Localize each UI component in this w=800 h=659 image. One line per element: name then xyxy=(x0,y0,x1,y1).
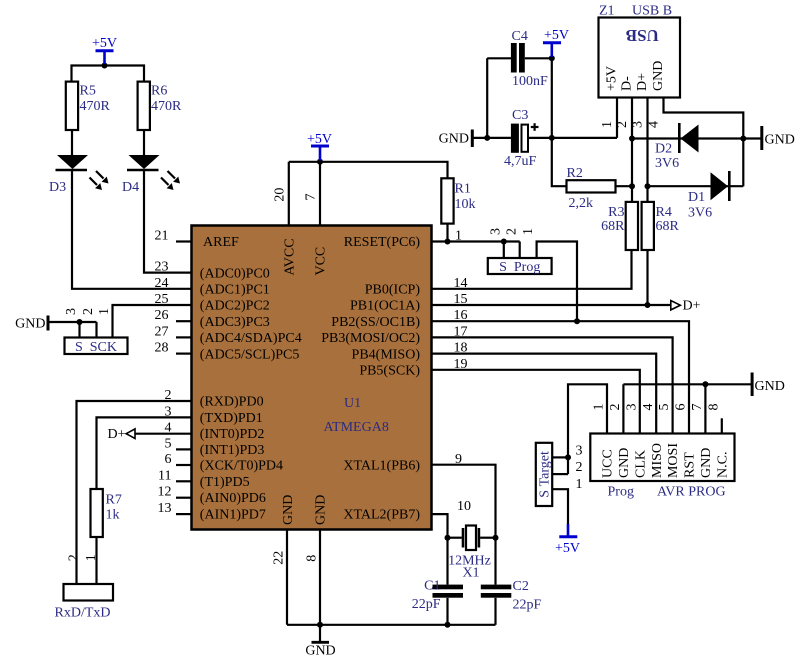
svg-text:2: 2 xyxy=(615,121,630,128)
capacitor C1 xyxy=(433,585,464,598)
svg-text:22pF: 22pF xyxy=(513,598,542,613)
wire S SCK pin2 xyxy=(95,322,97,338)
crystal X1 xyxy=(463,526,479,551)
pin stub 12 xyxy=(176,497,192,499)
ground bar C3 xyxy=(471,130,474,148)
svg-text:USB: USB xyxy=(626,26,659,45)
svg-text:GND: GND xyxy=(281,495,296,525)
wire pin3 PD1 to R7 xyxy=(97,417,192,489)
svg-text:PB1(OC1A): PB1(OC1A) xyxy=(350,299,420,314)
svg-text:CLK: CLK xyxy=(633,450,648,478)
wire AVCC pin20 xyxy=(288,162,290,226)
svg-text:D+: D+ xyxy=(635,73,650,91)
wire AVR pin2 xyxy=(622,384,624,433)
wire R4 bottom xyxy=(646,250,648,305)
svg-text:D+: D+ xyxy=(683,299,701,314)
svg-text:USB B: USB B xyxy=(632,4,672,19)
svg-text:6: 6 xyxy=(165,452,172,467)
resistor R4 xyxy=(642,202,654,250)
svg-text:R2: R2 xyxy=(567,166,583,181)
svg-text:PB0(ICP): PB0(ICP) xyxy=(365,283,421,298)
svg-text:R5: R5 xyxy=(80,84,96,99)
resistor R5 xyxy=(66,82,78,130)
svg-text:2: 2 xyxy=(81,308,96,315)
wire 17 PB3 to AVR MOSI xyxy=(432,337,673,433)
resistor R1 xyxy=(441,178,453,223)
pin stub 11 xyxy=(176,480,192,482)
wire 15 PB1 xyxy=(432,304,648,306)
svg-text:PB3(MOSI/OC2): PB3(MOSI/OC2) xyxy=(321,331,420,346)
wire R2 right xyxy=(616,185,633,187)
svg-text:C4: C4 xyxy=(512,29,528,44)
wire GND to C3 xyxy=(473,137,511,139)
svg-text:6: 6 xyxy=(674,404,689,411)
svg-text:+5V: +5V xyxy=(307,132,332,147)
svg-text:1k: 1k xyxy=(106,508,120,523)
svg-text:22pF: 22pF xyxy=(412,597,441,612)
svg-text:7: 7 xyxy=(690,404,705,411)
svg-text:10: 10 xyxy=(457,499,471,514)
wire C1 bottom xyxy=(446,598,448,625)
wire bottom rail xyxy=(287,624,496,626)
svg-text:XTAL2(PB7): XTAL2(PB7) xyxy=(343,508,420,523)
wire AVR pin7 xyxy=(704,384,706,433)
wire S Prog pin2 xyxy=(519,242,521,259)
pin stub 28 xyxy=(176,353,192,355)
svg-text:8: 8 xyxy=(706,404,721,411)
svg-text:(AIN0)PD6: (AIN0)PD6 xyxy=(200,491,266,506)
switch S SCK xyxy=(65,338,128,355)
svg-text:3: 3 xyxy=(165,404,172,419)
svg-text:C1: C1 xyxy=(424,579,440,594)
wire AVR pin8 stub xyxy=(721,418,723,433)
power +5V symbol C4 xyxy=(543,43,561,57)
svg-text:R3: R3 xyxy=(608,205,624,220)
switch S Prog xyxy=(488,258,552,274)
svg-text:27: 27 xyxy=(155,324,169,339)
power +5V symbol S Target xyxy=(559,524,577,537)
wire D2 row xyxy=(632,137,761,139)
svg-text:4: 4 xyxy=(165,421,172,436)
svg-text:Z1: Z1 xyxy=(599,4,615,19)
wire pin2 PD0 to RxD/TxD xyxy=(77,401,192,584)
node D+ arrow left xyxy=(126,429,135,439)
wire S Target pin2 xyxy=(552,473,568,475)
wire R7 to RxD/TxD xyxy=(95,537,97,584)
wire C2 bottom xyxy=(494,598,496,625)
pin stub 6 xyxy=(176,464,192,466)
wire 9 XTAL1 xyxy=(432,465,496,538)
wire VCC pin7 xyxy=(319,162,321,226)
svg-text:ATMEGA8: ATMEGA8 xyxy=(324,420,389,435)
wire S SCK pin3 xyxy=(78,322,80,338)
power +5V symbol VCC xyxy=(311,146,329,161)
wire S Target pin1 to +5V xyxy=(552,489,568,525)
wire S Target pin3 xyxy=(552,456,568,458)
svg-text:PB5(SCK): PB5(SCK) xyxy=(359,364,420,379)
power +5V symbol top-left xyxy=(96,51,114,64)
node D+ arrow right xyxy=(671,301,681,310)
svg-text:16: 16 xyxy=(454,308,468,323)
svg-text:8: 8 xyxy=(305,555,320,562)
svg-text:GND: GND xyxy=(439,132,469,147)
wire 10 XTAL2 xyxy=(432,514,448,585)
svg-text:68R: 68R xyxy=(656,219,680,234)
LED D4 xyxy=(127,155,180,190)
svg-text:GND: GND xyxy=(617,448,632,478)
wire crystal right xyxy=(480,537,495,539)
svg-text:1: 1 xyxy=(521,228,536,235)
IC U1 ATMEGA8 xyxy=(192,226,432,530)
svg-text:AVCC: AVCC xyxy=(283,238,298,275)
svg-text:4,7uF: 4,7uF xyxy=(504,154,537,169)
svg-text:XTAL1(PB6): XTAL1(PB6) xyxy=(343,458,420,473)
svg-text:7: 7 xyxy=(304,194,319,201)
ground bar S SCK xyxy=(47,316,50,331)
resistor R7 xyxy=(91,489,103,537)
svg-text:3: 3 xyxy=(488,228,503,235)
svg-text:3: 3 xyxy=(631,121,646,128)
svg-text:R1: R1 xyxy=(455,182,471,197)
svg-text:14: 14 xyxy=(454,276,468,291)
svg-text:(ADC1)PC1: (ADC1)PC1 xyxy=(200,283,270,298)
resistor R2 xyxy=(567,180,616,192)
svg-text:RST: RST xyxy=(683,452,698,478)
svg-text:3: 3 xyxy=(64,308,79,315)
svg-text:R4: R4 xyxy=(656,205,672,220)
svg-text:MISO: MISO xyxy=(650,443,665,478)
capacitor C3 polarized xyxy=(511,123,539,153)
svg-text:15: 15 xyxy=(454,292,468,307)
resistor R6 xyxy=(138,82,150,130)
svg-text:10k: 10k xyxy=(455,197,476,212)
svg-text:(T1)PD5: (T1)PD5 xyxy=(200,475,250,490)
wire D4 cathode to pin23 xyxy=(144,171,192,273)
svg-text:2: 2 xyxy=(504,228,519,235)
svg-text:3: 3 xyxy=(624,404,639,411)
wire S SCK pin1 to pin25 xyxy=(113,305,192,338)
svg-text:470R: 470R xyxy=(151,99,182,114)
svg-text:17: 17 xyxy=(454,324,468,339)
svg-text:(XCK/T0)PD4: (XCK/T0)PD4 xyxy=(200,459,283,474)
svg-text:20: 20 xyxy=(273,188,288,202)
svg-text:23: 23 xyxy=(155,260,169,275)
svg-text:C3: C3 xyxy=(512,108,528,123)
svg-text:C2: C2 xyxy=(513,579,529,594)
svg-text:2: 2 xyxy=(608,404,623,411)
wire GND pin8 xyxy=(319,530,321,625)
svg-text:5: 5 xyxy=(165,436,172,451)
svg-text:PB4(MISO): PB4(MISO) xyxy=(352,347,421,362)
svg-text:Prog: Prog xyxy=(608,485,634,500)
svg-text:3V6: 3V6 xyxy=(655,156,679,171)
svg-text:(INT1)PD3: (INT1)PD3 xyxy=(200,443,265,458)
switch S Target xyxy=(536,443,552,506)
svg-text:11: 11 xyxy=(158,468,171,483)
svg-text:2: 2 xyxy=(66,554,81,561)
wire top-left rail xyxy=(72,66,145,82)
svg-text:2: 2 xyxy=(576,460,583,475)
svg-text:AVR PROG: AVR PROG xyxy=(657,485,726,500)
svg-text:3: 3 xyxy=(576,444,583,459)
svg-text:GND: GND xyxy=(699,448,714,478)
connector Z1 USB B xyxy=(599,18,681,98)
svg-text:(ADC3)PC3: (ADC3)PC3 xyxy=(200,315,270,330)
ground bar AVR PROG xyxy=(751,373,754,397)
wire reset pin1 xyxy=(432,240,520,242)
wire R6 to D4 xyxy=(143,130,145,155)
svg-text:RESET(PC6): RESET(PC6) xyxy=(344,235,421,250)
svg-text:(ADC0)PC0: (ADC0)PC0 xyxy=(200,266,270,281)
wire GND to S SCK pins xyxy=(50,321,97,323)
wire R1 bottom xyxy=(446,224,448,242)
LED D3 xyxy=(56,155,109,190)
svg-text:100nF: 100nF xyxy=(512,74,548,89)
svg-text:D2: D2 xyxy=(655,142,672,157)
svg-text:(ADC2)PC2: (ADC2)PC2 xyxy=(200,299,270,314)
wire C2 top xyxy=(494,538,496,585)
wire R5 to D3 xyxy=(71,130,73,155)
svg-text:(INT0)PD2: (INT0)PD2 xyxy=(200,427,265,442)
wire C4 right plate xyxy=(525,57,552,59)
svg-text:PB2(SS/OC1B): PB2(SS/OC1B) xyxy=(331,315,420,330)
svg-text:1: 1 xyxy=(592,404,607,411)
svg-text:N.C.: N.C. xyxy=(715,452,730,478)
svg-text:S Target: S Target xyxy=(538,451,553,498)
svg-text:68R: 68R xyxy=(601,219,625,234)
svg-text:2,2k: 2,2k xyxy=(569,196,594,211)
svg-text:+5V: +5V xyxy=(92,36,117,51)
svg-text:(AIN1)PD7: (AIN1)PD7 xyxy=(200,508,266,523)
svg-text:R6: R6 xyxy=(151,84,167,99)
svg-text:GND: GND xyxy=(651,61,666,91)
svg-text:(ADC5/SCL)PC5: (ADC5/SCL)PC5 xyxy=(200,347,300,362)
wire D1 row xyxy=(648,185,744,187)
wire USB pin3 D+ column xyxy=(646,98,648,202)
svg-text:26: 26 xyxy=(155,308,169,323)
svg-text:UCC: UCC xyxy=(601,449,616,478)
svg-text:1: 1 xyxy=(84,554,99,561)
svg-text:GND: GND xyxy=(305,644,335,659)
svg-text:13: 13 xyxy=(158,501,172,516)
svg-text:+5V: +5V xyxy=(605,66,620,91)
wire USB pin4 GND route xyxy=(664,98,744,187)
wire D3 cathode to pin24 xyxy=(72,171,192,289)
svg-text:25: 25 xyxy=(155,292,169,307)
svg-text:D-: D- xyxy=(620,76,635,91)
svg-text:+5V: +5V xyxy=(555,541,580,556)
ground symbol bottom xyxy=(312,641,330,644)
wire C3 right xyxy=(528,137,617,139)
svg-text:3V6: 3V6 xyxy=(688,206,712,221)
svg-text:470R: 470R xyxy=(80,99,111,114)
svg-text:1: 1 xyxy=(600,121,615,128)
svg-text:2: 2 xyxy=(165,388,172,403)
svg-text:RxD/TxD: RxD/TxD xyxy=(55,606,111,621)
pin stub 13 xyxy=(176,513,192,515)
svg-text:21: 21 xyxy=(155,229,169,244)
svg-text:D1: D1 xyxy=(688,190,705,205)
svg-text:1: 1 xyxy=(576,477,583,492)
wire +5V column to R2 xyxy=(552,58,567,186)
svg-text:GND: GND xyxy=(765,133,795,148)
svg-text:22: 22 xyxy=(272,551,287,565)
svg-text:AREF: AREF xyxy=(203,235,239,250)
svg-text:28: 28 xyxy=(155,341,169,356)
wire pin4 PD2 to D+ arrow xyxy=(135,433,192,435)
svg-text:GND: GND xyxy=(15,317,45,332)
pin stub 26 xyxy=(176,320,192,322)
wire bottom GND stem xyxy=(319,625,321,642)
zener D2 xyxy=(679,123,698,153)
ground bar D2 xyxy=(760,126,763,150)
svg-text:9: 9 xyxy=(455,452,462,467)
svg-text:4: 4 xyxy=(647,121,662,128)
wire S Prog pin3 xyxy=(503,242,505,259)
pin stub 21 xyxy=(176,240,192,242)
wire GND pin22 xyxy=(286,530,288,625)
svg-text:S SCK: S SCK xyxy=(75,340,117,355)
wire +5V rail to R1 xyxy=(289,162,448,179)
pin stub 27 xyxy=(176,336,192,338)
connector RxD/TxD xyxy=(64,584,114,601)
wire crystal left xyxy=(448,537,462,539)
svg-text:+5V: +5V xyxy=(544,28,569,43)
svg-text:GND: GND xyxy=(755,379,785,394)
resistor R3 xyxy=(626,202,638,250)
wire C4 left plate xyxy=(487,57,511,59)
svg-text:1: 1 xyxy=(97,308,112,315)
svg-text:18: 18 xyxy=(454,341,468,356)
svg-text:5: 5 xyxy=(657,404,672,411)
wire S Prog pin1 to wire16 xyxy=(537,242,577,322)
svg-text:R7: R7 xyxy=(106,493,122,508)
capacitor C4 xyxy=(511,43,525,73)
wire 19 PB5 to AVR CLK xyxy=(432,370,640,434)
svg-text:(RXD)PD0: (RXD)PD0 xyxy=(200,395,264,410)
svg-text:(ADC4/SDA)PC4: (ADC4/SDA)PC4 xyxy=(200,331,302,346)
svg-text:4: 4 xyxy=(641,404,656,411)
svg-text:1: 1 xyxy=(455,229,462,244)
svg-text:19: 19 xyxy=(454,357,468,372)
svg-text:24: 24 xyxy=(155,276,169,291)
capacitor C2 xyxy=(481,585,512,598)
svg-text:(TXD)PD1: (TXD)PD1 xyxy=(200,411,263,426)
wire USB pin2 D- column xyxy=(631,98,633,202)
wire UCC rail xyxy=(568,384,607,474)
svg-text:S Prog: S Prog xyxy=(499,260,540,275)
wire 18 PB4 to AVR MISO xyxy=(432,354,657,434)
wire C4 left branch xyxy=(486,58,488,138)
wire D+ arrow branch xyxy=(648,304,672,306)
wire 16 PB2 to AVR RST xyxy=(432,321,690,433)
svg-text:12: 12 xyxy=(158,485,172,500)
connector AVR PROG xyxy=(590,434,734,482)
wire AVR GND rail xyxy=(623,383,751,385)
svg-text:D4: D4 xyxy=(122,180,139,195)
svg-text:D+: D+ xyxy=(108,427,126,442)
wire USB pin1 xyxy=(616,98,618,138)
wire 14 PB0 to R3 xyxy=(432,250,632,289)
svg-text:U1: U1 xyxy=(344,396,361,411)
pin stub 5 xyxy=(176,448,192,450)
svg-text:X1: X1 xyxy=(462,566,479,581)
svg-text:MOSI: MOSI xyxy=(666,443,681,478)
svg-text:GND: GND xyxy=(314,495,329,525)
svg-text:D3: D3 xyxy=(49,180,66,195)
zener D1 xyxy=(711,171,730,201)
svg-text:VCC: VCC xyxy=(314,247,329,276)
